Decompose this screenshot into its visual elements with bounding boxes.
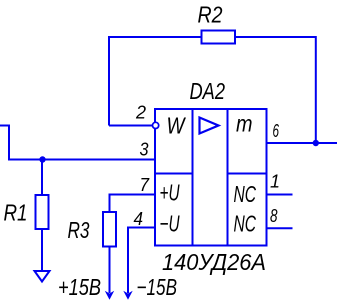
svg-text:3: 3 (140, 140, 149, 160)
svg-text:1: 1 (270, 172, 280, 192)
svg-text:6: 6 (273, 121, 280, 141)
wire input from left edge to pin 3 (0, 126, 155, 160)
svg-text:8: 8 (270, 206, 278, 226)
resistor R3 (103, 212, 116, 247)
resistor R1 (36, 195, 49, 229)
op-amp DA2 outer box (155, 109, 267, 246)
svg-text:R3: R3 (68, 217, 90, 243)
wire pin 7 to R3 (110, 195, 156, 213)
svg-text:R2: R2 (198, 2, 223, 28)
wire pin 2 horizontal (109, 125, 152, 127)
op-amp DA2 inner divider left (192, 109, 194, 246)
svg-text:+U: +U (160, 180, 180, 206)
inverting input circle pin 2 (153, 122, 159, 128)
svg-text:DA2: DA2 (190, 78, 226, 104)
svg-text:4: 4 (134, 209, 144, 229)
svg-text:NC: NC (234, 181, 257, 207)
junction node input (39, 156, 45, 162)
arrowhead -15V (123, 291, 132, 300)
op-amp DA2 right column horizontal divider (228, 173, 267, 175)
wire pin 6 output (267, 142, 337, 144)
wire R1 bottom lead (41, 229, 43, 271)
resistor R2 (202, 31, 236, 44)
svg-text:140УД26А: 140УД26А (162, 249, 266, 275)
op-amp DA2 amplifier triangle (200, 118, 219, 134)
op-amp DA2 left column horizontal divider (155, 173, 193, 175)
svg-text:W: W (167, 113, 187, 139)
junction node output (313, 140, 319, 146)
svg-text:2: 2 (135, 103, 146, 123)
svg-text:R1: R1 (4, 200, 28, 226)
arrowhead +15V (105, 291, 114, 300)
wire pin 1 stub (267, 194, 293, 196)
wire R3 to +15V arrow (109, 247, 111, 294)
svg-text:+15В: +15В (58, 274, 101, 300)
wire R1 top lead (41, 160, 43, 196)
ground (35, 271, 50, 282)
svg-text:7: 7 (140, 175, 150, 195)
svg-text:−15В: −15В (137, 274, 178, 300)
svg-text:−U: −U (160, 211, 180, 237)
wire pin 4 to -15V arrow (128, 228, 155, 294)
wire top segment from R2 to right corner, down to output node (235, 37, 316, 143)
wire pin 8 stub (267, 227, 293, 229)
wire feedback left vertical + top segment to R2 (109, 37, 202, 126)
svg-text:m: m (236, 111, 253, 137)
op-amp DA2 inner divider right (227, 109, 229, 246)
svg-text:NC: NC (234, 211, 257, 237)
